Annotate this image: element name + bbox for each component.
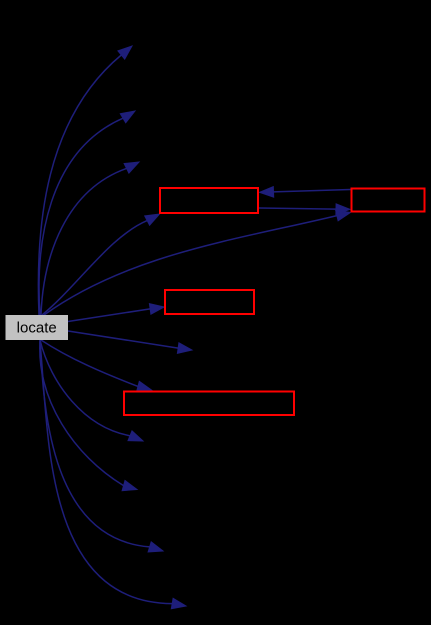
edge box1->box2 (259, 204, 350, 215)
edge locate->n11 (40, 341, 163, 552)
edge box2->box1 (260, 187, 351, 198)
edge locate->n7 (68, 331, 192, 353)
box4 (truncated node, red border) (124, 392, 294, 416)
edge locate->n3 (41, 162, 139, 315)
edge locate->n2 (39, 111, 135, 315)
edge locate->n10 (40, 340, 137, 491)
edge locate->n9 (40, 340, 143, 441)
edge locate->box2 (long curve) (44, 211, 351, 316)
box2 (truncated node, red border) (352, 189, 425, 212)
edge locate->box4 (41, 340, 152, 392)
edge locate->box1 (42, 214, 160, 315)
edge locate->box3 (68, 304, 164, 322)
box3 (truncated node, red border) (165, 290, 254, 314)
edge locate->n12 (40, 342, 186, 609)
box1 (truncated node, red border) (160, 188, 258, 213)
node locate (current node, grey fill) (6, 315, 69, 340)
svg-text:locate: locate (17, 320, 57, 337)
edge locate->n1 (topmost arrow) (38, 46, 132, 315)
